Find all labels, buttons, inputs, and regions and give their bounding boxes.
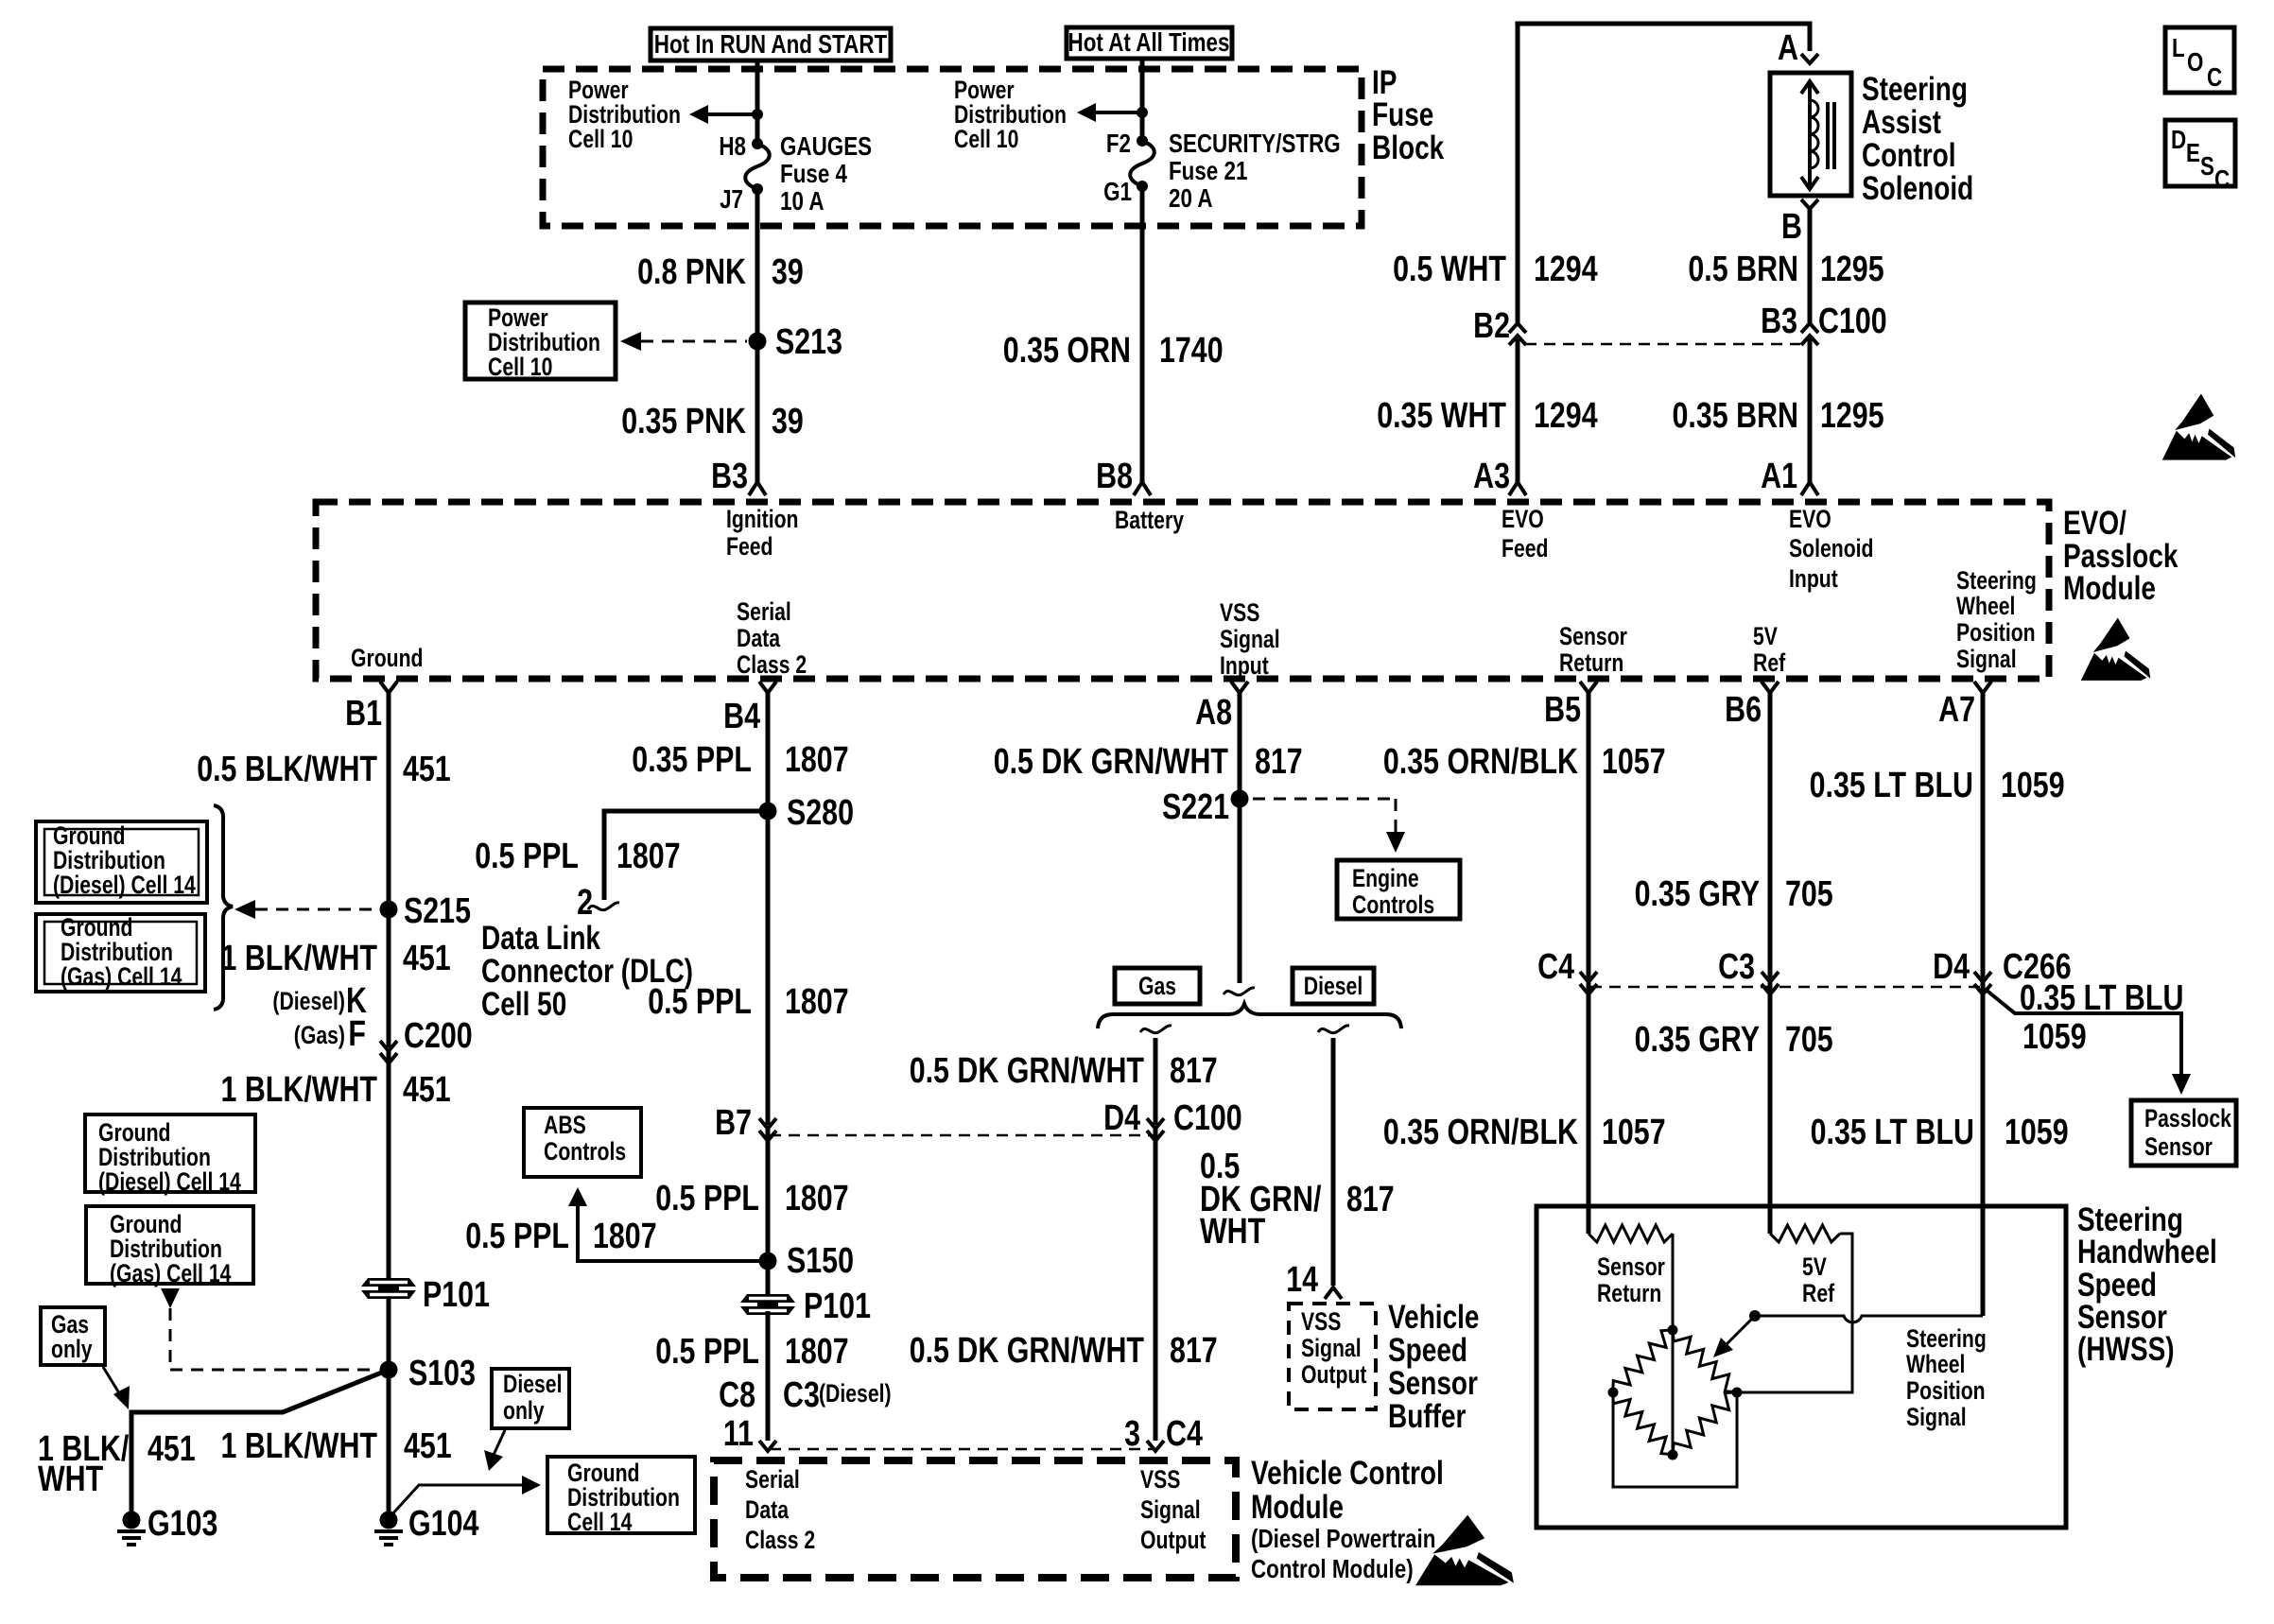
node bridge right xyxy=(1732,1388,1743,1398)
svg-text:0.5 DK GRN/WHT: 0.5 DK GRN/WHT xyxy=(910,1051,1144,1091)
svg-text:Passlock: Passlock xyxy=(2144,1104,2231,1132)
svg-text:Input: Input xyxy=(1789,564,1838,593)
svg-text:0.5 DK GRN/WHT: 0.5 DK GRN/WHT xyxy=(994,742,1228,782)
svg-text:1295: 1295 xyxy=(1820,396,1884,436)
wire dashed VCM top connector line xyxy=(770,1448,1154,1451)
pin label Steering Wheel Position Signal xyxy=(1956,566,2037,673)
label 5V Ref (inside) xyxy=(1802,1253,1834,1307)
svg-text:1294: 1294 xyxy=(1534,396,1598,436)
wire dashed C100 line (B7 to D4) xyxy=(770,1134,1154,1137)
svg-text:Steering: Steering xyxy=(1956,566,2037,595)
pin 3 C4 into VCM xyxy=(1124,1414,1203,1454)
module dashed box VCM xyxy=(714,1460,1236,1578)
svg-text:Position: Position xyxy=(1906,1376,1986,1405)
svg-text:705: 705 xyxy=(1785,1020,1833,1060)
svg-text:C: C xyxy=(2214,164,2230,194)
svg-text:1059: 1059 xyxy=(2022,1017,2087,1057)
node A8 wire end hook xyxy=(1224,988,1255,995)
box Ground Distribution (Diesel) Cell 14 (lower) xyxy=(85,1114,255,1196)
svg-text:Input: Input xyxy=(1220,651,1269,680)
pin label Serial Data Class 2 xyxy=(737,597,807,679)
label IP Fuse Block xyxy=(1372,64,1445,166)
box Gas xyxy=(1115,968,1200,1004)
wire gas branch to D4 xyxy=(1154,1038,1158,1125)
svg-text:Feed: Feed xyxy=(1502,534,1549,562)
wire arrow Gas only to gas wire xyxy=(103,1367,130,1409)
svg-text:39: 39 xyxy=(772,252,804,292)
connector D4 C100 xyxy=(1103,1098,1242,1141)
svg-text:Battery: Battery xyxy=(1115,506,1184,534)
svg-text:Cell 10: Cell 10 xyxy=(568,125,633,153)
label 0.35 GRY 705 (upper) xyxy=(1635,874,1833,914)
node DLC pin 2 hook xyxy=(588,903,619,910)
connector C8 C3 (Diesel) xyxy=(719,1375,892,1415)
connector P101 (serial) xyxy=(740,1294,795,1315)
svg-text:A: A xyxy=(1778,28,1798,68)
svg-text:A7: A7 xyxy=(1938,690,1975,730)
label 0.5 BLK/WHT 451 xyxy=(197,750,451,789)
svg-text:Diesel: Diesel xyxy=(503,1370,563,1398)
pin A connector xyxy=(1778,28,1818,68)
wire B1 main S103 to G104 xyxy=(387,1370,391,1520)
svg-text:G103: G103 xyxy=(148,1504,217,1544)
splice S221 xyxy=(1231,790,1249,808)
node wiper dot xyxy=(1749,1310,1761,1322)
pin label EVO Feed xyxy=(1502,505,1549,562)
label Steering Handwheel Speed Sensor (HWSS) xyxy=(2077,1201,2217,1368)
connector B2 xyxy=(1473,306,1526,346)
svg-text:0.35 BRN: 0.35 BRN xyxy=(1673,396,1799,436)
box LOC xyxy=(2165,27,2234,93)
pin B connector xyxy=(1781,199,1818,247)
wire DLC stub xyxy=(604,811,768,900)
svg-text:Control: Control xyxy=(1862,137,1956,174)
wire G104 to ground distribution arrow xyxy=(391,1476,541,1516)
svg-text:Feed: Feed xyxy=(726,532,773,561)
svg-text:Fuse: Fuse xyxy=(1372,96,1433,133)
label 0.8 PNK 39 xyxy=(637,252,804,292)
svg-text:P101: P101 xyxy=(804,1287,871,1326)
svg-text:1057: 1057 xyxy=(1602,742,1666,782)
svg-text:B: B xyxy=(1781,207,1802,247)
svg-text:F: F xyxy=(348,1014,366,1054)
module dashed box EVO/Passlock xyxy=(316,502,2049,679)
wire B4 to S280 xyxy=(766,693,771,811)
svg-text:Output: Output xyxy=(1301,1360,1367,1389)
svg-text:1807: 1807 xyxy=(785,740,849,780)
svg-text:C8: C8 xyxy=(719,1375,755,1415)
svg-text:Control Module): Control Module) xyxy=(1251,1554,1414,1583)
svg-text:Return: Return xyxy=(1559,648,1623,677)
connector B7 xyxy=(715,1103,776,1143)
svg-text:Class 2: Class 2 xyxy=(737,650,807,679)
box Ground Distribution (Gas) Cell 14 (upper) xyxy=(36,913,205,992)
svg-text:Serial: Serial xyxy=(745,1465,800,1494)
svg-text:S215: S215 xyxy=(404,891,471,931)
pin label EVO Solenoid Input xyxy=(1789,505,1874,593)
ground G103 xyxy=(117,1504,217,1545)
wire EVO feed lower xyxy=(1516,336,1520,483)
pin A1 into module xyxy=(1761,457,1818,496)
pin label Ignition Feed xyxy=(726,505,799,561)
svg-text:Wheel: Wheel xyxy=(1956,592,2015,620)
svg-text:(Gas) Cell 14: (Gas) Cell 14 xyxy=(61,962,182,991)
svg-text:705: 705 xyxy=(1785,874,1833,914)
ESD symbol top right xyxy=(2162,394,2235,460)
label 0.35 ORN/BLK 1057 (upper) xyxy=(1383,742,1666,782)
pin B3 into module xyxy=(711,457,766,496)
svg-text:VSS: VSS xyxy=(1140,1465,1180,1494)
label 0.5 DK GRN/WHT 817 (lower) xyxy=(910,1331,1218,1371)
bridge resistor top-right xyxy=(1673,1330,1737,1392)
fuse F21 SECURITY/STRG (F2/G1) xyxy=(1130,135,1154,192)
brace gas/diesel split xyxy=(1098,1004,1401,1028)
svg-text:only: only xyxy=(51,1335,93,1363)
wire dashed arrow box to S103 xyxy=(161,1288,377,1370)
svg-text:Steering: Steering xyxy=(1906,1324,1987,1353)
svg-text:G104: G104 xyxy=(408,1504,478,1544)
wire dashed C266 line xyxy=(1590,986,1981,989)
label 0.5 DK GRN/WHT 817 xyxy=(994,742,1303,782)
svg-text:Vehicle Control: Vehicle Control xyxy=(1251,1455,1444,1492)
svg-text:Fuse 4: Fuse 4 xyxy=(780,159,847,188)
svg-text:A3: A3 xyxy=(1473,457,1510,496)
wire S280 to B7 xyxy=(766,811,771,1125)
svg-text:0.35 LT BLU: 0.35 LT BLU xyxy=(2020,978,2183,1018)
svg-text:0.35 GRY: 0.35 GRY xyxy=(1635,874,1760,914)
svg-text:451: 451 xyxy=(403,750,451,789)
svg-text:G1: G1 xyxy=(1103,177,1132,206)
svg-text:Wheel: Wheel xyxy=(1906,1350,1965,1378)
svg-text:Engine: Engine xyxy=(1352,864,1419,892)
bridge resistor top-left xyxy=(1613,1330,1673,1392)
label 0.5 DK GRN/WHT 817 (gas branch) xyxy=(910,1051,1218,1091)
svg-text:5V: 5V xyxy=(1802,1253,1827,1281)
wire B5 to HWSS xyxy=(1587,693,1591,1234)
svg-text:Vehicle: Vehicle xyxy=(1388,1299,1480,1336)
svg-text:Solenoid: Solenoid xyxy=(1789,534,1874,562)
svg-text:0.5 BLK/WHT: 0.5 BLK/WHT xyxy=(197,750,377,789)
svg-text:C200: C200 xyxy=(404,1016,473,1056)
box Hot At All Times xyxy=(1067,27,1232,59)
svg-text:451: 451 xyxy=(148,1429,196,1469)
label VSS Signal Output (VCM) xyxy=(1140,1465,1206,1554)
label 0.35 GRY 705 (lower) xyxy=(1635,1020,1833,1060)
svg-text:1057: 1057 xyxy=(1602,1113,1666,1152)
label Data Link Connector (DLC) Cell 50 xyxy=(481,920,693,1023)
wire arrow to power distribution left xyxy=(689,105,757,124)
svg-text:39: 39 xyxy=(772,402,804,441)
svg-text:0.35 LT BLU: 0.35 LT BLU xyxy=(1811,1113,1974,1152)
svg-text:11: 11 xyxy=(723,1414,754,1454)
svg-text:Cell 50: Cell 50 xyxy=(481,986,566,1023)
svg-text:Ref: Ref xyxy=(1753,648,1785,677)
box Steering Handwheel Speed Sensor xyxy=(1536,1206,2066,1528)
svg-text:B3: B3 xyxy=(1761,302,1797,341)
node gas branch hook xyxy=(1140,1026,1172,1033)
svg-text:1807: 1807 xyxy=(785,1179,849,1218)
svg-text:F2: F2 xyxy=(1106,129,1131,158)
svg-text:451: 451 xyxy=(404,1426,452,1466)
svg-text:1 BLK/WHT: 1 BLK/WHT xyxy=(221,1070,378,1110)
label Vehicle Speed Sensor Buffer xyxy=(1388,1299,1480,1435)
svg-text:Controls: Controls xyxy=(1352,890,1434,919)
svg-text:817: 817 xyxy=(1170,1331,1218,1371)
box Diesel only xyxy=(492,1369,569,1428)
node bridge left xyxy=(1608,1388,1619,1398)
svg-text:1807: 1807 xyxy=(785,1332,849,1372)
wire diesel branch to VSS buffer xyxy=(1331,1038,1336,1286)
splice S280 xyxy=(759,803,777,821)
label 1 BLK/WHT 451 (above G104) xyxy=(221,1426,452,1466)
svg-text:Sensor: Sensor xyxy=(2144,1132,2213,1161)
label 0.5 PPL 1807 (ABS tap) xyxy=(465,1217,656,1256)
svg-text:Class 2: Class 2 xyxy=(745,1526,815,1554)
svg-text:B2: B2 xyxy=(1473,306,1510,346)
svg-text:(Diesel): (Diesel) xyxy=(819,1379,892,1408)
label Power Distribution Cell 10 (in IP block right) xyxy=(954,76,1067,153)
svg-text:(HWSS): (HWSS) xyxy=(2077,1331,2175,1368)
label 0.5 PPL 1807 (above B7) xyxy=(648,982,848,1022)
svg-text:B4: B4 xyxy=(723,697,760,736)
svg-text:Sensor: Sensor xyxy=(1597,1253,1665,1281)
svg-text:Block: Block xyxy=(1372,130,1445,166)
svg-text:Speed: Speed xyxy=(1388,1332,1467,1369)
label 0.5 DK GRN/ WHT (3 lines) xyxy=(1200,1147,1395,1252)
label 0.5 BRN 1295 xyxy=(1688,250,1883,289)
pin 14 fork into VSS buffer xyxy=(1286,1260,1342,1300)
svg-text:B8: B8 xyxy=(1096,457,1133,496)
solenoid U1 Steering Assist Control Solenoid xyxy=(1770,73,1851,196)
svg-text:0.35 ORN/BLK: 0.35 ORN/BLK xyxy=(1383,1113,1579,1152)
label Power Distribution Cell 10 (in IP block left) xyxy=(568,76,681,153)
svg-text:0.35 LT BLU: 0.35 LT BLU xyxy=(1810,766,1973,805)
svg-text:C3: C3 xyxy=(783,1375,820,1415)
pin label VSS Signal Input xyxy=(1220,598,1280,680)
pin A8 xyxy=(1195,682,1248,733)
label 0.5 WHT 1294 xyxy=(1393,250,1598,289)
svg-text:Signal: Signal xyxy=(1220,625,1280,653)
pin label Sensor Return xyxy=(1559,622,1627,677)
svg-text:SECURITY/STRG: SECURITY/STRG xyxy=(1169,129,1341,158)
svg-text:0.5 PPL: 0.5 PPL xyxy=(655,1179,759,1218)
pin A3 into module xyxy=(1473,457,1526,496)
wire passlock tap xyxy=(1985,989,2191,1095)
svg-text:WHT: WHT xyxy=(1200,1212,1265,1252)
svg-text:D4: D4 xyxy=(1933,947,1970,987)
wire ABS tap from S150 xyxy=(568,1187,762,1261)
connector B3 C100 xyxy=(1761,302,1887,345)
label 0.35 ORN/BLK 1057 (lower) xyxy=(1383,1113,1666,1152)
box Hot In RUN And START xyxy=(651,28,891,60)
splice S150 xyxy=(759,1253,777,1270)
svg-text:817: 817 xyxy=(1346,1180,1395,1219)
pin A7 xyxy=(1938,682,1991,730)
label (Diesel) K xyxy=(272,981,367,1021)
wire A8 to S221 xyxy=(1238,693,1242,983)
svg-text:Ground: Ground xyxy=(351,644,424,672)
box Diesel xyxy=(1293,968,1374,1004)
connector C200 xyxy=(380,1041,397,1063)
svg-text:817: 817 xyxy=(1255,742,1303,782)
wire EVO solenoid input lower xyxy=(1808,336,1813,483)
svg-text:B5: B5 xyxy=(1544,690,1581,730)
pin B8 into module xyxy=(1096,457,1151,496)
brace for ground distribution boxes xyxy=(214,805,233,1010)
label 0.5 PPL 1807 (DLC stub) xyxy=(475,837,680,876)
ESD symbol VCM xyxy=(1415,1515,1514,1586)
ground G104 xyxy=(374,1504,478,1545)
svg-text:H8: H8 xyxy=(719,131,746,161)
box DESC xyxy=(2165,120,2235,194)
svg-text:Signal: Signal xyxy=(1140,1495,1201,1524)
svg-text:(Gas): (Gas) xyxy=(294,1021,345,1049)
svg-text:GAUGES: GAUGES xyxy=(780,131,872,161)
svg-text:Return: Return xyxy=(1597,1279,1661,1307)
wire A7 down xyxy=(1981,693,1986,1316)
label SECURITY/STRG Fuse 21 20 A xyxy=(1169,129,1341,213)
svg-text:1294: 1294 xyxy=(1534,250,1598,289)
wire dashed S221 to engine controls xyxy=(1253,799,1405,853)
wire arrow to power distribution right xyxy=(1077,103,1142,122)
svg-text:VSS: VSS xyxy=(1301,1307,1341,1336)
label 0.35 LT BLU 1059 (lower) xyxy=(1811,1113,2069,1152)
svg-text:Cell 10: Cell 10 xyxy=(488,353,552,381)
svg-text:C: C xyxy=(2207,62,2222,92)
svg-text:(Gas) Cell 14: (Gas) Cell 14 xyxy=(110,1259,232,1287)
label 0.35 PNK 39 xyxy=(621,402,804,441)
label 0.35 BRN 1295 xyxy=(1673,396,1884,436)
svg-text:Position: Position xyxy=(1956,618,2036,647)
svg-text:D: D xyxy=(2171,125,2186,154)
svg-text:C3: C3 xyxy=(1718,947,1755,987)
svg-text:0.35 PNK: 0.35 PNK xyxy=(621,402,746,441)
node junction dot left power dist tap xyxy=(752,109,763,120)
svg-text:O: O xyxy=(2187,47,2203,77)
svg-text:0.35 ORN/BLK: 0.35 ORN/BLK xyxy=(1383,742,1579,782)
svg-text:1807: 1807 xyxy=(616,837,681,876)
svg-text:ABS: ABS xyxy=(544,1111,586,1139)
svg-text:Signal: Signal xyxy=(1906,1403,1967,1431)
pin B4 xyxy=(723,682,776,736)
bridge resistor bottom-left xyxy=(1613,1392,1673,1455)
wire gas branch S103 to G103 xyxy=(131,1370,389,1520)
svg-text:Solenoid: Solenoid xyxy=(1862,170,1973,207)
svg-text:Fuse 21: Fuse 21 xyxy=(1169,156,1247,185)
label EVO/ Passlock Module xyxy=(2063,505,2179,607)
resistor 5V ref xyxy=(1770,1225,1840,1242)
pin 11 into VCM xyxy=(723,1414,776,1454)
label 1 BLK/WHT 451 (above C200) xyxy=(221,939,451,978)
label 0.35 ORN 1740 xyxy=(1003,331,1224,371)
svg-text:1807: 1807 xyxy=(593,1217,657,1256)
svg-text:Data: Data xyxy=(745,1495,789,1524)
pin label 5V Ref xyxy=(1753,622,1785,677)
label Steering Assist Control Solenoid xyxy=(1862,71,1973,207)
svg-text:B1: B1 xyxy=(345,694,382,734)
svg-text:Serial: Serial xyxy=(737,597,791,626)
svg-text:Ignition: Ignition xyxy=(726,505,799,533)
svg-text:Module: Module xyxy=(2063,570,2156,607)
svg-text:Gas: Gas xyxy=(1138,972,1176,1000)
label Serial Data Class 2 (VCM) xyxy=(745,1465,815,1554)
svg-text:(Diesel): (Diesel) xyxy=(272,987,345,1015)
svg-text:0.5 DK GRN/WHT: 0.5 DK GRN/WHT xyxy=(910,1331,1144,1371)
svg-text:EVO: EVO xyxy=(1789,505,1831,533)
svg-text:Signal: Signal xyxy=(1301,1334,1362,1362)
wire P101 to VCM pin 11 xyxy=(766,1311,771,1441)
wire dashed C100 line xyxy=(1525,343,1800,346)
wire ignition feed J7 to B3 xyxy=(755,189,760,483)
label 0.35 PPL 1807 xyxy=(632,740,848,780)
wire arrow Diesel only to wire xyxy=(484,1430,505,1471)
resistor sensor return xyxy=(1588,1225,1673,1242)
pin B5 xyxy=(1544,682,1597,730)
wire dashed arrow brace to S215 xyxy=(234,900,377,919)
svg-text:2: 2 xyxy=(577,883,593,923)
wire D4 to VCM pin 3 xyxy=(1154,1129,1158,1441)
splice S215 xyxy=(380,901,398,919)
svg-text:P101: P101 xyxy=(423,1275,490,1315)
wire B7 to S150 xyxy=(766,1129,771,1294)
svg-text:(Diesel) Cell 14: (Diesel) Cell 14 xyxy=(53,871,196,899)
svg-text:Sensor: Sensor xyxy=(1559,622,1627,650)
svg-text:0.5 PPL: 0.5 PPL xyxy=(648,982,752,1022)
box Power Distribution Cell 10 (standalone) xyxy=(465,302,616,381)
wiper arrow xyxy=(1713,1319,1752,1357)
label GAUGES Fuse 4 10 A xyxy=(780,131,872,216)
svg-text:EVO: EVO xyxy=(1502,505,1544,533)
wire B6 to HWSS xyxy=(1768,693,1773,1234)
box Engine Controls xyxy=(1337,860,1460,919)
svg-text:1807: 1807 xyxy=(785,982,849,1022)
svg-text:Controls: Controls xyxy=(544,1137,626,1166)
wire B1 down to C200 xyxy=(387,693,391,1047)
label Vehicle Control Module (Diesel Powertrain Control Module) xyxy=(1251,1455,1444,1583)
svg-text:Cell 14: Cell 14 xyxy=(567,1508,633,1536)
wire C200 to P101 xyxy=(387,1051,391,1370)
svg-text:A8: A8 xyxy=(1195,693,1232,733)
svg-text:(Diesel Powertrain: (Diesel Powertrain xyxy=(1251,1524,1435,1553)
svg-text:0.5 WHT: 0.5 WHT xyxy=(1393,250,1506,289)
svg-text:10 A: 10 A xyxy=(780,186,825,216)
svg-text:B7: B7 xyxy=(715,1103,752,1143)
svg-text:Sensor: Sensor xyxy=(1388,1365,1478,1402)
bridge bottom loop wire xyxy=(1613,1392,1737,1487)
svg-text:Handwheel: Handwheel xyxy=(2077,1234,2217,1270)
node diesel branch hook xyxy=(1318,1026,1349,1033)
pin B6 xyxy=(1725,682,1779,730)
label Sensor Return (inside) xyxy=(1597,1253,1665,1307)
pin B1 xyxy=(345,682,397,734)
svg-text:WHT: WHT xyxy=(38,1460,103,1499)
svg-text:Hot In RUN And START: Hot In RUN And START xyxy=(654,29,887,59)
svg-text:3: 3 xyxy=(1124,1414,1140,1454)
svg-text:1 BLK/WHT: 1 BLK/WHT xyxy=(221,939,378,978)
svg-text:Buffer: Buffer xyxy=(1388,1398,1467,1435)
svg-text:VSS: VSS xyxy=(1220,598,1259,627)
wire 5V ref to bridge right xyxy=(1737,1234,1852,1392)
svg-text:1740: 1740 xyxy=(1159,331,1224,371)
svg-text:C100: C100 xyxy=(1818,302,1887,341)
svg-text:J7: J7 xyxy=(720,184,743,214)
svg-text:E: E xyxy=(2186,138,2200,167)
label 1 BLK/WHT 451 (below C200) xyxy=(221,1070,451,1110)
wire dashed arrow S213 to power dist box xyxy=(620,332,747,351)
svg-text:C4: C4 xyxy=(1537,947,1574,987)
connector C4 xyxy=(1537,947,1597,994)
connector D4 C266 xyxy=(1933,947,2072,994)
